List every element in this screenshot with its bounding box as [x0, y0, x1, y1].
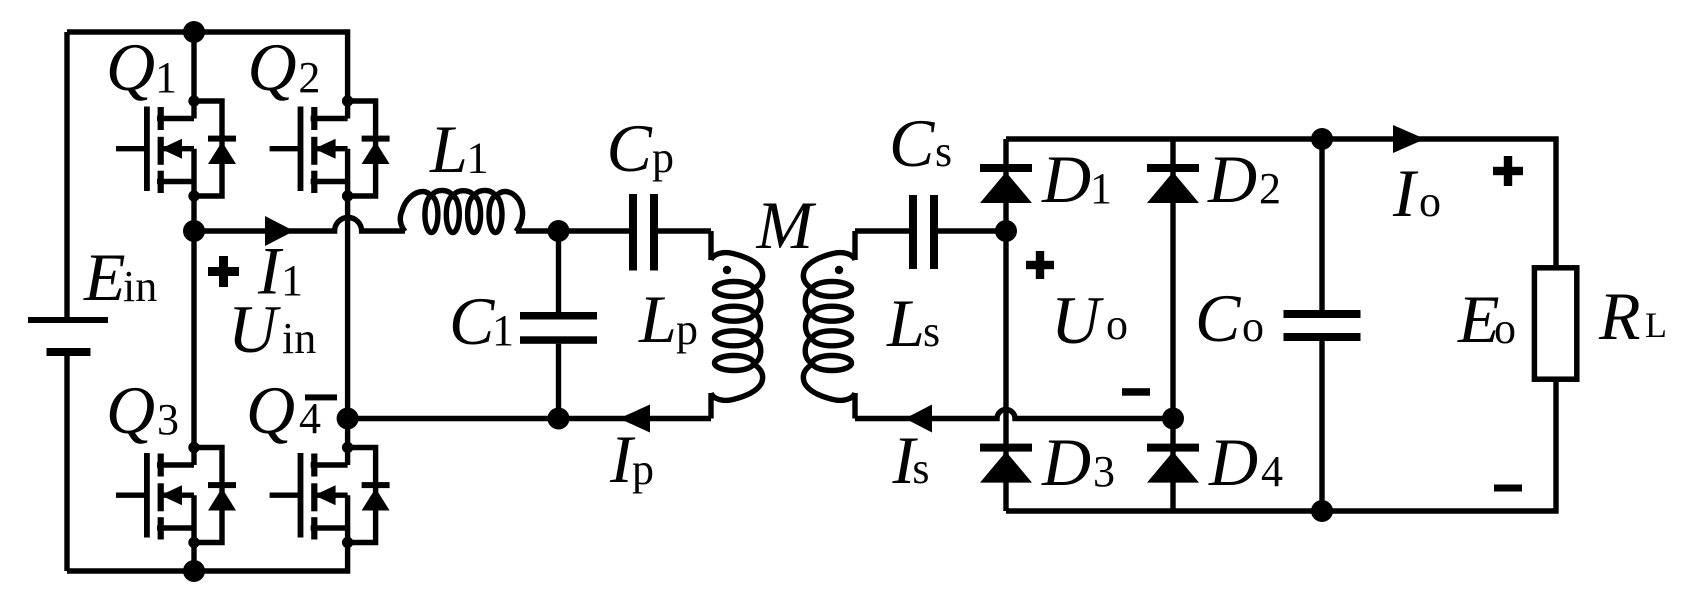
transistor Q4 (MOSFET with body diode) [270, 442, 390, 548]
svg-text:p: p [632, 445, 654, 494]
svg-text:R: R [1598, 278, 1641, 354]
minus sign (output -) [1494, 485, 1522, 492]
diode D2 [1147, 164, 1199, 203]
svg-text:1: 1 [492, 306, 514, 355]
wire: DC top rail to load [1006, 139, 1556, 265]
node: top rail / Co junction [1311, 128, 1333, 150]
svg-text:C: C [607, 110, 653, 186]
wire: L1 to Cp [516, 228, 629, 233]
wire: secondary return with hop over D1/D3 leg [855, 410, 1173, 419]
svg-text:Q: Q [246, 372, 295, 448]
wire: bottom primary return (node B to Lp exit) [348, 416, 711, 421]
wire: Q3 source to bottom rail [191, 543, 196, 572]
svg-text:L: L [1645, 305, 1667, 345]
svg-text:C: C [1195, 280, 1241, 356]
wire: Q1 source to node A [191, 196, 196, 231]
wire: Cs to rectifier node [938, 228, 1006, 233]
svg-text:C: C [449, 283, 495, 359]
svg-text:p: p [652, 133, 674, 182]
svg-text:2: 2 [1259, 164, 1281, 213]
inductor L1 [400, 190, 522, 232]
svg-text:D: D [1041, 424, 1091, 500]
svg-text:1: 1 [155, 53, 177, 102]
svg-text:U: U [1051, 282, 1104, 358]
svg-text:Q: Q [248, 29, 297, 105]
node B (bridge leg 2 midpoint) [337, 408, 359, 430]
svg-text:2: 2 [298, 53, 320, 102]
arrow Is (current direction) [905, 405, 932, 433]
transistor Q1 (MOSFET with body diode) [116, 95, 236, 201]
svg-text:D: D [1041, 141, 1091, 217]
svg-text:4: 4 [299, 394, 321, 443]
node: bottom rail / Co junction [1311, 500, 1333, 522]
svg-text:D: D [1208, 424, 1258, 500]
svg-text:1: 1 [1090, 164, 1112, 213]
svg-text:p: p [676, 305, 698, 354]
wire: node A down to Q3 drain [191, 231, 196, 448]
arrow Ip (current direction) [619, 405, 650, 433]
svg-text:o: o [1242, 302, 1264, 351]
svg-text:1: 1 [281, 256, 303, 305]
svg-text:3: 3 [1093, 447, 1115, 496]
capacitor C1 (shunt) [520, 231, 597, 419]
secondary winding Ls (with polarity dot) [803, 231, 855, 419]
capacitor Cs (series) [909, 195, 938, 269]
wire: rectifier leg D2/D4 [1170, 139, 1175, 511]
node: bottom rail / Q3 source junction [183, 560, 205, 582]
wire: Cp to Lp entry [658, 228, 711, 233]
plus sign (U_o +) [1026, 251, 1054, 279]
wire: rectifier leg D1/D3 [1003, 139, 1008, 511]
capacitor Co (output filter) [1284, 139, 1361, 511]
minus sign (U_o -) [1122, 388, 1150, 396]
svg-text:4: 4 [1261, 447, 1283, 496]
svg-text:L: L [429, 111, 468, 187]
node: D1/D3 midpoint (rectifier input +) [995, 220, 1017, 242]
node: rectifier input - (D2/D4 midpoint) [1162, 408, 1184, 430]
svg-text:o: o [1494, 304, 1516, 353]
diode D3 [980, 444, 1032, 483]
plus sign (output +) [1493, 156, 1523, 186]
capacitor Cp (series) [629, 194, 658, 271]
svg-text:o: o [1419, 177, 1441, 226]
wire: Q1 drain stub [191, 32, 196, 101]
wire: Q2 source down to node B (crosses under hop) [345, 196, 350, 419]
svg-text:U: U [228, 291, 281, 367]
wire: node A to L1 with hop over Q2 leg [194, 218, 405, 232]
resistor R_L (load) [1534, 268, 1576, 379]
svg-text:M: M [756, 187, 817, 263]
wire: node B to Q4 drain [345, 419, 350, 448]
svg-text:in: in [123, 262, 157, 311]
diode D1 [980, 164, 1032, 203]
svg-text:L: L [886, 285, 925, 361]
svg-text:D: D [1207, 141, 1257, 217]
svg-text:E: E [83, 239, 126, 315]
wire: bottom rail from battery to Q4 source [67, 543, 348, 572]
svg-text:1: 1 [467, 134, 489, 183]
svg-text:s: s [935, 127, 952, 176]
svg-text:C: C [889, 105, 935, 181]
battery E_in (source symbol) [28, 32, 108, 571]
svg-text:L: L [638, 281, 677, 357]
plus sign (U_in +) [208, 256, 239, 287]
svg-text:s: s [912, 444, 929, 493]
node A (bridge leg 1 midpoint) [183, 220, 205, 242]
diode D4 [1147, 444, 1199, 483]
svg-text:Q: Q [106, 372, 155, 448]
svg-text:3: 3 [157, 395, 179, 444]
wire: top rail from battery to Q2 drain [67, 32, 348, 101]
svg-text:Q: Q [106, 29, 155, 105]
node: top rail / Q1 drain junction [183, 21, 205, 43]
arrow Io (current direction) [1393, 125, 1425, 153]
minus sign (U_in -) [305, 394, 337, 400]
svg-text:in: in [282, 314, 316, 363]
wire: Ls to Cs [855, 228, 909, 233]
svg-text:s: s [923, 307, 940, 356]
transistor Q2 (MOSFET with body diode) [270, 95, 390, 201]
svg-text:I: I [1392, 155, 1419, 231]
svg-text:o: o [1106, 300, 1128, 349]
primary winding Lp (with polarity dot) [711, 231, 763, 419]
node: C1 bottom junction [548, 408, 570, 430]
wire: DC bottom rail [1006, 382, 1556, 511]
node: C1 top junction [548, 220, 570, 242]
transistor Q3 (MOSFET with body diode) [116, 442, 236, 548]
arrow I1 (current direction) [265, 216, 294, 246]
